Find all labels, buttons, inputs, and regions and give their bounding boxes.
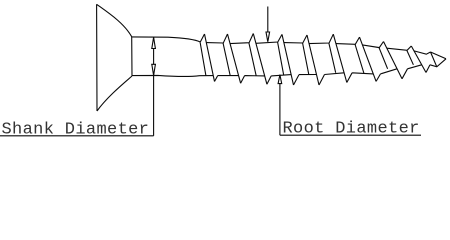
head bbox=[97, 4, 132, 111]
shank dimension arrow up bbox=[151, 37, 156, 48]
root diameter label underline bbox=[280, 134, 421, 136]
shank dimension arrow down bbox=[151, 64, 156, 75]
svg-text:Root Diameter: Root Diameter bbox=[283, 120, 420, 139]
root diameter bottom arrowhead bbox=[278, 75, 283, 84]
thread bottom profile bbox=[200, 65, 431, 85]
root diameter bottom leader bbox=[279, 84, 281, 136]
screw diagram bbox=[0, 0, 450, 140]
svg-text:Shank Diameter: Shank Diameter bbox=[2, 120, 150, 139]
shank diameter label underline bbox=[0, 135, 154, 137]
root diameter top arrowhead bbox=[266, 32, 271, 42]
root diameter top arrow shaft bbox=[267, 7, 269, 33]
shank bottom line bbox=[132, 75, 200, 76]
thread back flank lines bbox=[200, 42, 413, 76]
thread flank lines (crest to root) bbox=[205, 34, 437, 86]
shank top line bbox=[132, 37, 201, 42]
thread top profile bbox=[200, 34, 430, 55]
shank diameter dimension line and leader bbox=[153, 37, 155, 136]
thread tip point bbox=[430, 52, 446, 67]
